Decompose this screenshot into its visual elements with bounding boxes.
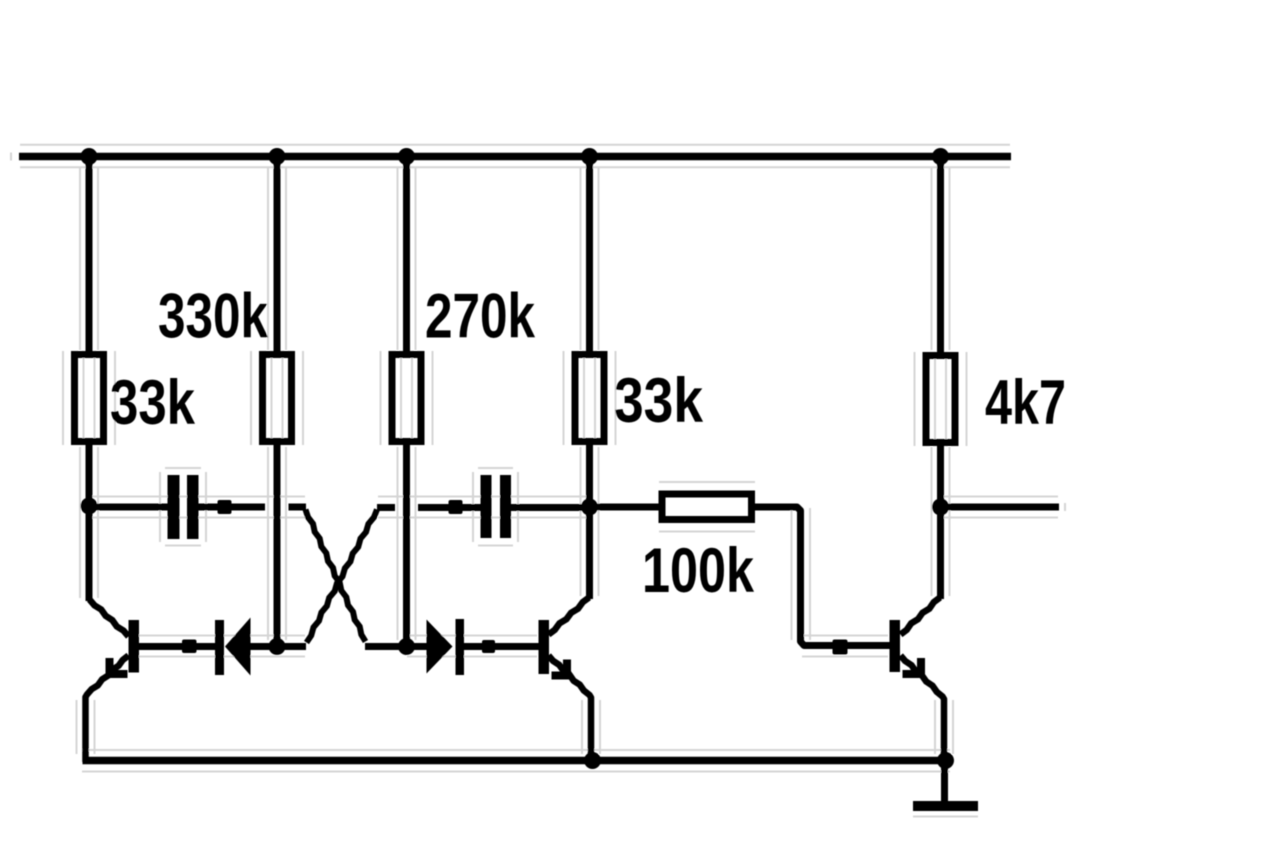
transistor Q2 base bar [539, 620, 550, 674]
svg-text:33k: 33k [614, 366, 704, 436]
wire: Q1 emitter diagonal with elbow down to bottom rail [86, 656, 129, 763]
wire: ground stem [941, 758, 948, 806]
diode D2 (arrow pointing right toward Q2 base) [427, 620, 453, 674]
wire: Q1 collector node to C1 [89, 504, 168, 511]
resistor R3 270k (Q2 base bias) [392, 355, 421, 442]
wire: Q2 emitter diagonal with elbow down to bottom rail [549, 656, 592, 763]
junction node: Q3 emitter / ground [937, 752, 954, 769]
wire: rail to R5 (4k7) top [937, 156, 944, 353]
junction node: rail/R4 [581, 148, 598, 165]
junction node: rail/R1 [81, 148, 98, 165]
wire: stub after 330k crossing [289, 504, 307, 511]
wire: C1 to crossover gap [198, 504, 265, 511]
svg-text:270k: 270k [425, 282, 536, 352]
junction node: Q3 collector / output [932, 499, 949, 516]
wire: Q3 emitter diagonal with elbow down to bottom rail [901, 656, 945, 763]
wire: 270k junction to D2 and landing stub [365, 643, 427, 650]
wire: cross-coupling diagonal from Q1 base row up to C2 side [307, 510, 378, 643]
Q2 emitter arrow [563, 660, 571, 678]
capacitor C2 plates [481, 475, 492, 538]
svg-text:330k: 330k [158, 282, 269, 352]
wire: R3 bottom to Q2 base row junction [403, 444, 410, 646]
transistor Q1 base bar [129, 620, 140, 673]
wire: bottom emitter rail [83, 757, 951, 765]
junction node: Q1 collector [81, 498, 98, 515]
resistor R2 330k (Q1 base bias) [263, 355, 292, 442]
wire: R5 bottom to output node and down [937, 445, 944, 599]
wire: R6 to corner and down to Q3 base row [755, 507, 891, 646]
Q3 emitter arrow [917, 658, 925, 678]
wire: C2 to Q2 collector node [511, 504, 590, 511]
wire: D1 to 330k junction and stub [250, 643, 306, 650]
junction node: rail/R2 [269, 148, 286, 165]
wire: R1 bottom to Q1 collector node and down [86, 444, 93, 601]
svg-text:33k: 33k [110, 368, 196, 438]
Q1 emitter arrow [106, 658, 114, 677]
solder point on Q3 base wire [833, 640, 848, 655]
wire: R2 bottom to Q1 base row junction [274, 444, 281, 646]
wire: rail to R1 (33k) top [86, 156, 93, 352]
wire: Q3 collector diagonal [901, 598, 941, 635]
solder point on C1 wire [218, 500, 232, 514]
wire: R4 bottom to Q2 collector node and down [586, 444, 593, 599]
wire: stub before 270k crossing [377, 504, 395, 511]
wire: rail to R4 (33k) top [586, 156, 593, 352]
junction node: rail/R5 [932, 148, 949, 165]
transistor Q3 base bar [890, 620, 901, 672]
wire: Q1 base row (base to D1) [138, 643, 216, 650]
wire: 270k crossing to C2 [418, 504, 481, 511]
wire: cross-coupling diagonal from C1 side down to Q2 base row [306, 510, 366, 642]
svg-text:100k: 100k [642, 536, 755, 606]
ground bar [913, 801, 978, 811]
wire: +V top supply rail [19, 153, 1011, 161]
diode D1 (cathode bar toward Q1 base, arrow pointing left) [215, 620, 224, 675]
wire: Q2 collector diagonal [549, 598, 590, 635]
junction node: Q2 collector [581, 499, 598, 516]
capacitor C1 plates [168, 475, 180, 539]
junction node: Q2 emitter / bottom rail [584, 752, 601, 769]
junction node: rail/R3 [398, 148, 415, 165]
resistor R4 33k (Q2 collector load) [575, 355, 604, 442]
junction node: R3/Q2 base row [398, 638, 415, 655]
junction node: R2/Q1 base row [269, 638, 286, 655]
wire: D2 to Q2 base [463, 643, 539, 650]
wire: Q1 collector diagonal [90, 600, 129, 637]
solder point on Q1 base wire [182, 640, 197, 654]
resistor R6 100k (Q3 base) [662, 494, 752, 520]
resistor R1 33k (Q1 collector load) [75, 355, 104, 442]
solder point on C2 wire [449, 500, 463, 514]
wire: rail to R3 (270k) top [403, 156, 410, 352]
resistor R5 4k7 (Q3 collector load) [926, 356, 955, 443]
wire: Q2 collector node to R6 (100k) [590, 504, 660, 511]
wire: rail to R2 (330k) top [274, 156, 281, 352]
solder point on Q2 base wire [482, 640, 495, 653]
svg-text:4k7: 4k7 [985, 368, 1066, 438]
wire: output line from collector of Q3 [941, 504, 1059, 511]
